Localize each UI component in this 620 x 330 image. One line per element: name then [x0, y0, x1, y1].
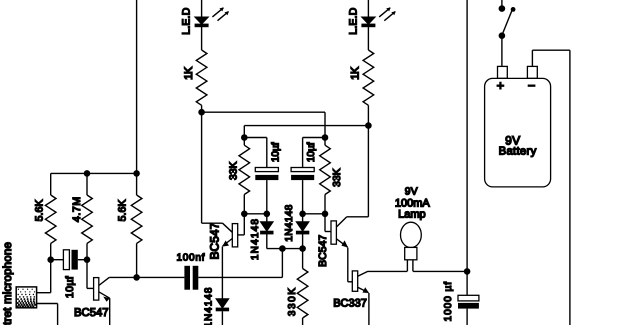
wire switch feed [501, 0, 503, 9]
resistor R8 330K [297, 249, 308, 325]
svg-text:L.E.D: L.E.D [181, 7, 193, 34]
label Q2 BC547 [207, 222, 221, 259]
wire Q1 collector [109, 276, 184, 278]
label battery Battery [499, 146, 537, 158]
capacitor C4 10uf (timing right) [291, 138, 325, 214]
label D5 1N4148 [204, 287, 215, 328]
node C3/D3 junction [264, 211, 271, 218]
label electret microphone [2, 242, 14, 330]
wire Q3 emitter to Q4 base [348, 248, 353, 282]
svg-text:33K: 33K [332, 168, 343, 187]
LED D1 [195, 7, 229, 26]
label D4 1N4148 [284, 204, 295, 241]
label D3 1N4148 [250, 218, 261, 260]
label C2 100nf [177, 253, 206, 264]
svg-text:1000 µf: 1000 µf [443, 281, 454, 322]
wire LED1 anode from +V [201, 0, 203, 17]
wire diode cathode rail [267, 248, 303, 250]
wire mic ground lead [37, 304, 58, 326]
svg-text:Lamp: Lamp [398, 209, 426, 221]
wire Q3 base rail [303, 213, 325, 215]
label C3 10uf [270, 142, 281, 162]
label R1 5.6K [33, 199, 45, 221]
svg-text:4.7M: 4.7M [71, 196, 83, 222]
wire C2 to trigger node [198, 249, 282, 278]
label C4 10uf [306, 142, 317, 162]
svg-text:Electret microphone: Electret microphone [2, 242, 14, 325]
label battery + terminal [497, 78, 505, 93]
node Q2 base net [241, 211, 248, 218]
label R6 33K [228, 161, 239, 180]
node Q1 collector / R3 [133, 274, 140, 281]
svg-text:5.6K: 5.6K [116, 199, 128, 221]
svg-text:10µf: 10µf [64, 276, 76, 298]
wire battery negative return [532, 50, 570, 325]
node Q3 base-bias top [322, 134, 329, 141]
label R5 1K [350, 66, 362, 80]
label Q3 BC547 [317, 235, 329, 267]
node C1 / R2 / base junction [84, 256, 91, 263]
wire Q2 base rail [244, 213, 266, 215]
wire +V supply drop to bias rail [136, 0, 138, 195]
lamp LA1 bulb [401, 222, 422, 271]
node Q2 collector net [198, 109, 205, 116]
label R8 330K [287, 286, 298, 316]
svg-text:1N4148: 1N4148 [250, 218, 261, 260]
electret microphone MIC1 [16, 287, 36, 308]
node Q3 base net [322, 211, 329, 218]
resistor R4 1K [196, 27, 207, 113]
diode D5 1N4148 (emitter) [216, 299, 228, 325]
wire LED2 anode from +V [367, 0, 369, 17]
wire cross-coupling to Q2 side [244, 126, 368, 138]
svg-text:BC547: BC547 [74, 307, 109, 319]
resistor R2 4.7M (base bias) [82, 173, 93, 259]
transistor Q1 BC547 (preamp) [94, 277, 110, 301]
wire cross-coupling to Q3 side [202, 112, 325, 137]
resistor R6 33K [239, 138, 250, 214]
label R3 5.6K [116, 199, 128, 221]
node C4/D4 junction [299, 211, 306, 218]
node bias rail / 4.7M junction [84, 170, 91, 177]
label R4 1K [183, 66, 195, 80]
svg-text:BC547: BC547 [207, 222, 221, 259]
wire Q2 collector drop [201, 112, 203, 223]
resistor R5 1K [363, 27, 374, 126]
capacitor C1 10uf (input coupling) [51, 250, 87, 270]
wire Q3 collector drop [367, 126, 369, 217]
wire Q4 collector rail [368, 270, 467, 272]
svg-text:Battery: Battery [499, 146, 537, 158]
label Q4 BC337 [333, 298, 367, 310]
svg-text:BC547: BC547 [317, 235, 329, 267]
resistor R1 5.6K (mic bias) [45, 173, 56, 259]
svg-text:330K: 330K [287, 286, 298, 316]
label battery 9V [505, 133, 520, 147]
label R2 4.7M [71, 196, 83, 222]
wire mic positive lead [37, 260, 51, 293]
capacitor C5 1000uf (supply smoothing) [458, 295, 479, 325]
wire Q2 emitter drop [221, 247, 223, 299]
diode D4 1N4148 [297, 214, 309, 249]
switch SW1 on-off [499, 5, 516, 66]
label D2 L.E.D [347, 7, 359, 34]
transistor Q4 BC337 (lamp driver) [352, 271, 369, 293]
wire Q1 base lead [87, 260, 94, 289]
label D1 L.E.D [181, 7, 193, 34]
svg-text:10µf: 10µf [270, 142, 281, 162]
node Q2 base-bias top [241, 134, 248, 141]
wire Q1 emitter to ground [109, 298, 111, 325]
label C1 10uf [64, 276, 76, 298]
label battery - terminal [528, 78, 536, 93]
wire Q4 emitter to ground [368, 293, 370, 325]
wire +V line right [466, 0, 468, 295]
svg-text:100nf: 100nf [177, 253, 206, 264]
svg-text:−: − [528, 78, 536, 93]
svg-text:9V: 9V [405, 186, 418, 197]
label C5 1000uf [443, 281, 454, 322]
wire bias rail [51, 172, 137, 174]
LED D2 [362, 7, 396, 26]
svg-text:5.6K: 5.6K [33, 199, 45, 221]
svg-text:L.E.D: L.E.D [347, 7, 359, 34]
svg-text:1K: 1K [183, 66, 195, 80]
transistor Q2 BC547 (flip-flop left, mirrored) [202, 214, 245, 247]
svg-text:1N4148: 1N4148 [204, 287, 215, 325]
node Q3 collector net [365, 122, 372, 129]
transistor Q3 BC547 (flip-flop right) [325, 214, 368, 248]
label lamp 9V 100mA Lamp [395, 186, 431, 220]
node trigger feed [279, 245, 286, 252]
svg-text:1N4148: 1N4148 [284, 204, 295, 241]
svg-text:1K: 1K [350, 66, 362, 80]
node mic / R1 / C1 junction [47, 256, 54, 263]
capacitor C3 10uf (timing left) [244, 138, 278, 214]
battery BT1 9V [485, 66, 551, 186]
resistor R7 33K [320, 138, 331, 214]
label R7 33K [332, 168, 343, 187]
svg-text:100mA: 100mA [395, 197, 431, 209]
svg-text:33K: 33K [228, 161, 239, 180]
label Q1 BC547 [74, 307, 109, 319]
node 330K feed [299, 245, 306, 252]
capacitor C2 100nf (coupling) [184, 266, 198, 290]
node lamp / +V junction [464, 268, 471, 275]
svg-text:BC337: BC337 [333, 298, 367, 310]
svg-text:10µf: 10µf [306, 142, 317, 162]
resistor R3 5.6K (collector load) [131, 195, 142, 277]
node bias rail / collector-load junction [133, 170, 140, 177]
diode D3 1N4148 [261, 214, 273, 249]
svg-text:+: + [497, 78, 505, 93]
